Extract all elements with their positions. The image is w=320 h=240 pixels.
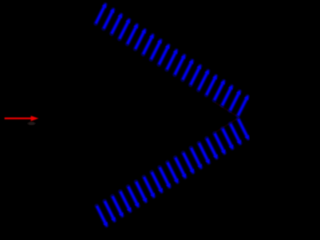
- faint shadow smudge under arrowhead: [28, 122, 36, 125]
- blue radiation arrow, lower band #11: [175, 158, 186, 179]
- red velocity arrow v: [5, 116, 39, 121]
- blue radiation arrow, upper band #6: [135, 29, 146, 49]
- blue radiation arrow, upper band #19: [238, 95, 249, 115]
- blue radiation arrow, upper band #9: [159, 44, 170, 64]
- blue radiation arrow, upper band #13: [191, 65, 202, 85]
- blue radiation arrow, upper band #18: [230, 90, 241, 110]
- axis left (y-axis): [0, 0, 2, 232]
- blue radiation arrow, upper band #12: [183, 60, 194, 80]
- blue radiation arrow, lower band #13: [191, 148, 202, 169]
- blue radiation arrow, upper band #2: [104, 8, 115, 28]
- blue radiation arrow, lower band #15: [207, 138, 218, 159]
- blue radiation arrow, upper band #5: [127, 24, 137, 44]
- blue radiation arrow, upper band #7: [143, 34, 154, 54]
- blue radiation arrow, lower band #10: [168, 163, 179, 184]
- blue radiation arrow, lower band #8: [152, 172, 163, 193]
- blue radiation arrow, lower band #9: [160, 167, 171, 188]
- shock front line upper (faint dark red): [215, 103, 239, 118]
- blue radiation arrow, lower band #5: [128, 187, 139, 208]
- blue radiation arrow, upper band #15: [206, 75, 217, 95]
- blue radiation arrow, lower band #4: [120, 192, 131, 213]
- blue radiation arrow, upper band #11: [175, 54, 186, 74]
- shock front line lower (faint dark red): [215, 118, 239, 133]
- blue radiation arrow, lower band #1: [97, 206, 108, 227]
- blue radiation arrow, upper band #17: [222, 85, 233, 105]
- blue radiation arrow, lower band #17: [223, 129, 234, 150]
- blue radiation arrow, upper band #10: [167, 49, 178, 69]
- blue radiation arrow, upper band #1: [96, 3, 107, 23]
- blue radiation arrow, upper band #16: [214, 80, 225, 100]
- blue radiation arrow, upper band #14: [199, 70, 210, 90]
- blue radiation arrow, lower band #2: [105, 201, 116, 222]
- blue radiation arrow, lower band #3: [113, 196, 124, 217]
- blue radiation arrow, lower band #14: [199, 143, 210, 164]
- blue radiation arrow, lower band #18: [230, 124, 241, 145]
- blue radiation arrow, upper band #8: [151, 39, 162, 59]
- blue radiation arrow, lower band #12: [183, 153, 194, 174]
- axis bottom (x-axis): [0, 231, 250, 233]
- blue radiation arrow, lower band #7: [144, 177, 155, 198]
- blue radiation arrow, lower band #19: [238, 119, 249, 140]
- blue radiation arrow, lower band #6: [136, 182, 147, 203]
- blue radiation arrow, upper band #4: [120, 19, 131, 39]
- blue radiation arrow, upper band #3: [112, 14, 123, 34]
- blue radiation arrow, lower band #16: [215, 134, 226, 155]
